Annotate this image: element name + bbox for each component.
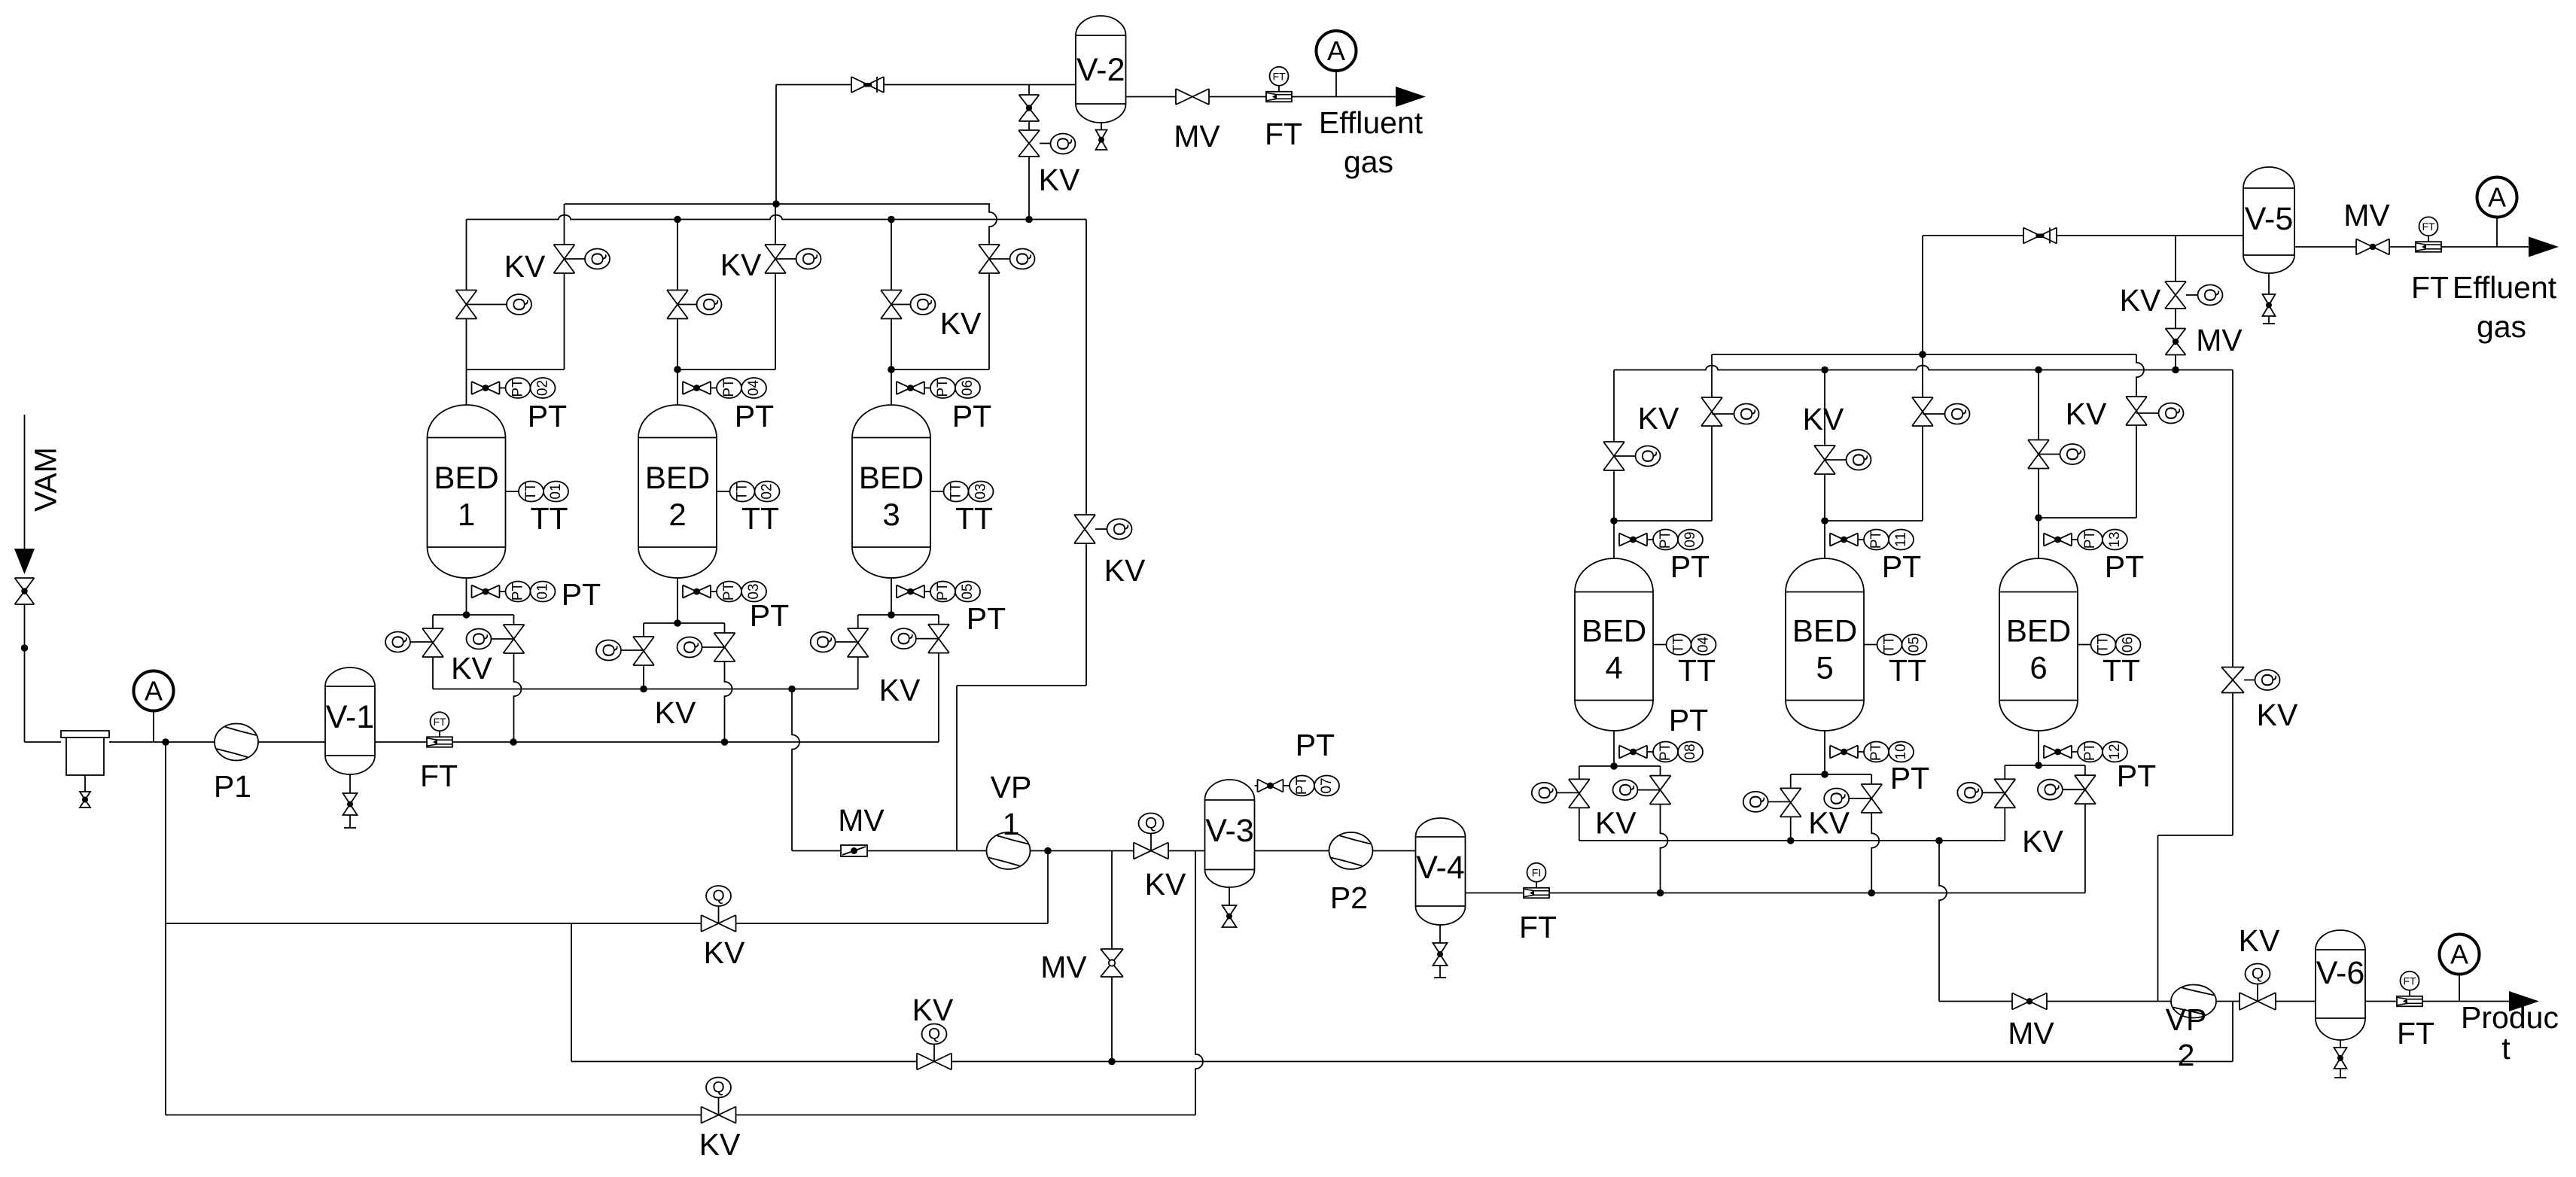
svg-text:Q: Q bbox=[1849, 453, 1868, 467]
svg-text:TT: TT bbox=[523, 482, 539, 500]
svg-text:Q: Q bbox=[2040, 783, 2060, 796]
svg-text:07: 07 bbox=[1319, 777, 1335, 793]
svg-text:A: A bbox=[1327, 35, 1345, 66]
svg-text:PT: PT bbox=[1868, 530, 1884, 549]
svg-text:KV: KV bbox=[2120, 283, 2161, 318]
svg-text:PT: PT bbox=[1658, 742, 1673, 761]
svg-text:05: 05 bbox=[1907, 637, 1923, 652]
svg-text:PT: PT bbox=[1296, 728, 1335, 762]
svg-text:KV: KV bbox=[655, 695, 696, 730]
svg-text:KV: KV bbox=[1039, 163, 1080, 197]
svg-text:1: 1 bbox=[458, 497, 475, 532]
svg-text:Q: Q bbox=[2252, 966, 2264, 983]
svg-text:P1: P1 bbox=[214, 769, 251, 804]
svg-text:TT: TT bbox=[741, 501, 779, 536]
svg-text:MV: MV bbox=[2008, 1016, 2054, 1051]
svg-text:V-4: V-4 bbox=[1416, 850, 1465, 886]
svg-text:TT: TT bbox=[530, 501, 568, 536]
svg-text:Q: Q bbox=[469, 632, 489, 646]
svg-text:02: 02 bbox=[760, 483, 775, 499]
svg-text:PT: PT bbox=[2082, 742, 2098, 761]
svg-text:Q: Q bbox=[699, 298, 719, 312]
svg-text:PT: PT bbox=[2082, 530, 2098, 549]
svg-text:3: 3 bbox=[882, 497, 900, 532]
svg-text:TT: TT bbox=[955, 501, 993, 536]
svg-text:BED: BED bbox=[645, 460, 710, 495]
svg-text:KV: KV bbox=[1595, 806, 1637, 841]
svg-text:2: 2 bbox=[668, 497, 686, 532]
svg-text:PT: PT bbox=[935, 582, 951, 601]
svg-text:Q: Q bbox=[588, 252, 607, 266]
svg-text:Q: Q bbox=[2161, 406, 2181, 420]
svg-text:V-1: V-1 bbox=[326, 699, 375, 735]
svg-text:PT: PT bbox=[2117, 759, 2156, 793]
svg-text:TT: TT bbox=[1671, 636, 1687, 654]
svg-text:Q: Q bbox=[388, 635, 408, 649]
svg-text:PT: PT bbox=[1882, 549, 1921, 584]
svg-text:Q: Q bbox=[510, 298, 529, 312]
svg-text:PT: PT bbox=[1890, 761, 1929, 795]
svg-text:13: 13 bbox=[2107, 531, 2123, 547]
svg-text:KV: KV bbox=[2257, 698, 2298, 732]
svg-text:t: t bbox=[2501, 1031, 2511, 1066]
svg-text:P2: P2 bbox=[1330, 880, 1368, 915]
svg-text:FT: FT bbox=[1272, 70, 1286, 82]
svg-text:Q: Q bbox=[599, 643, 619, 657]
svg-text:KV: KV bbox=[940, 306, 982, 341]
svg-text:Q: Q bbox=[799, 252, 818, 266]
svg-text:TT: TT bbox=[1889, 653, 1926, 688]
svg-text:PT: PT bbox=[1868, 742, 1884, 761]
svg-text:Q: Q bbox=[928, 1026, 940, 1043]
svg-text:05: 05 bbox=[960, 583, 976, 599]
svg-text:03: 03 bbox=[973, 483, 989, 499]
svg-text:Q: Q bbox=[1737, 407, 1756, 421]
svg-text:FT: FT bbox=[2403, 975, 2416, 987]
svg-text:Q: Q bbox=[1012, 252, 1032, 266]
svg-text:KV: KV bbox=[2066, 397, 2107, 431]
svg-text:03: 03 bbox=[746, 583, 762, 599]
svg-text:PT: PT bbox=[1294, 776, 1310, 795]
svg-text:Effluent: Effluent bbox=[2453, 270, 2557, 305]
svg-text:10: 10 bbox=[1893, 744, 1909, 759]
svg-text:KV: KV bbox=[879, 673, 921, 707]
svg-text:A: A bbox=[2450, 939, 2468, 970]
svg-text:PT: PT bbox=[510, 379, 526, 397]
svg-text:Q: Q bbox=[680, 640, 699, 654]
svg-text:KV: KV bbox=[1145, 867, 1186, 902]
svg-text:gas: gas bbox=[2477, 309, 2526, 344]
svg-text:FT: FT bbox=[433, 716, 446, 728]
svg-text:Produc: Produc bbox=[2461, 1000, 2559, 1035]
svg-text:VP: VP bbox=[991, 770, 1032, 804]
svg-text:02: 02 bbox=[535, 380, 551, 396]
svg-text:MV: MV bbox=[2196, 323, 2243, 357]
svg-text:V-2: V-2 bbox=[1076, 52, 1125, 88]
svg-text:PT: PT bbox=[721, 582, 737, 601]
svg-text:Q: Q bbox=[712, 887, 724, 905]
svg-text:TT: TT bbox=[735, 482, 751, 500]
svg-text:PT: PT bbox=[562, 577, 601, 612]
svg-text:BED: BED bbox=[859, 460, 924, 495]
svg-text:TT: TT bbox=[1678, 653, 1716, 688]
svg-text:FI: FI bbox=[1532, 866, 1541, 878]
svg-text:KV: KV bbox=[2239, 923, 2280, 958]
svg-text:MV: MV bbox=[838, 803, 885, 838]
svg-text:TT: TT bbox=[1882, 636, 1898, 654]
svg-text:PT: PT bbox=[1658, 530, 1673, 549]
svg-text:01: 01 bbox=[535, 583, 551, 599]
svg-text:04: 04 bbox=[1696, 637, 1712, 653]
svg-text:FT: FT bbox=[1265, 117, 1302, 151]
svg-text:Q: Q bbox=[813, 635, 833, 649]
svg-text:06: 06 bbox=[960, 380, 976, 396]
svg-text:PT: PT bbox=[750, 598, 789, 633]
svg-text:Q: Q bbox=[1947, 407, 1967, 421]
svg-text:PT: PT bbox=[510, 582, 526, 601]
svg-text:MV: MV bbox=[2343, 198, 2390, 233]
svg-text:A: A bbox=[145, 676, 163, 707]
svg-text:PT: PT bbox=[721, 379, 737, 397]
svg-text:PT: PT bbox=[967, 601, 1006, 636]
svg-text:BED: BED bbox=[434, 460, 498, 495]
svg-text:Q: Q bbox=[2258, 674, 2277, 687]
svg-text:Q: Q bbox=[1534, 786, 1554, 799]
svg-text:KV: KV bbox=[451, 651, 492, 686]
svg-text:Q: Q bbox=[2063, 448, 2082, 461]
svg-text:6: 6 bbox=[2029, 650, 2047, 686]
svg-text:Q: Q bbox=[1638, 449, 1658, 463]
svg-text:TT: TT bbox=[948, 482, 964, 500]
svg-text:KV: KV bbox=[1803, 402, 1844, 436]
svg-text:VAM: VAM bbox=[29, 447, 63, 512]
svg-text:MV: MV bbox=[1040, 950, 1087, 984]
svg-text:Q: Q bbox=[712, 1079, 724, 1096]
svg-text:KV: KV bbox=[704, 935, 745, 970]
svg-text:MV: MV bbox=[1174, 119, 1220, 154]
svg-text:PT: PT bbox=[735, 399, 774, 433]
svg-text:12: 12 bbox=[2107, 744, 2123, 759]
svg-text:2: 2 bbox=[2178, 1038, 2195, 1072]
svg-text:KV: KV bbox=[1808, 806, 1850, 841]
svg-text:PT: PT bbox=[935, 379, 951, 397]
svg-text:Q: Q bbox=[1960, 786, 1980, 799]
svg-text:PT: PT bbox=[952, 399, 991, 433]
svg-text:PT: PT bbox=[1669, 703, 1708, 738]
svg-text:5: 5 bbox=[1816, 650, 1833, 686]
svg-text:gas: gas bbox=[1344, 144, 1393, 179]
svg-text:KV: KV bbox=[2022, 824, 2063, 859]
svg-text:Q: Q bbox=[1145, 815, 1157, 832]
svg-text:Q: Q bbox=[2200, 288, 2220, 302]
svg-text:BED: BED bbox=[1582, 613, 1646, 649]
svg-text:1: 1 bbox=[1003, 807, 1020, 841]
svg-text:Q: Q bbox=[1827, 792, 1847, 805]
svg-text:V-3: V-3 bbox=[1205, 813, 1254, 849]
svg-text:4: 4 bbox=[1605, 650, 1622, 686]
svg-text:PT: PT bbox=[1670, 549, 1710, 584]
svg-text:FT: FT bbox=[420, 759, 458, 793]
svg-text:BED: BED bbox=[1792, 613, 1857, 649]
svg-text:BED: BED bbox=[2006, 613, 2071, 649]
svg-text:04: 04 bbox=[746, 380, 762, 397]
svg-text:V-5: V-5 bbox=[2245, 201, 2294, 237]
svg-text:Q: Q bbox=[1746, 795, 1765, 808]
svg-text:KV: KV bbox=[699, 1127, 741, 1162]
svg-text:KV: KV bbox=[720, 248, 762, 282]
svg-text:VP: VP bbox=[2166, 1002, 2207, 1037]
svg-text:PT: PT bbox=[2105, 549, 2144, 584]
svg-text:A: A bbox=[2488, 182, 2506, 213]
svg-text:09: 09 bbox=[1682, 531, 1698, 547]
svg-text:FT: FT bbox=[1519, 910, 1557, 944]
svg-text:TT: TT bbox=[2096, 636, 2112, 654]
svg-text:TT: TT bbox=[2103, 653, 2140, 688]
svg-text:KV: KV bbox=[1104, 553, 1146, 588]
svg-text:06: 06 bbox=[2121, 637, 2136, 652]
svg-text:Q: Q bbox=[1110, 522, 1129, 536]
svg-text:FT: FT bbox=[2397, 1016, 2434, 1051]
svg-text:V-6: V-6 bbox=[2316, 955, 2365, 991]
svg-text:KV: KV bbox=[1638, 401, 1679, 436]
svg-text:KV: KV bbox=[912, 993, 954, 1027]
svg-text:01: 01 bbox=[548, 483, 564, 499]
svg-text:PT: PT bbox=[528, 399, 567, 433]
svg-text:KV: KV bbox=[504, 249, 546, 284]
svg-text:Effluent: Effluent bbox=[1319, 105, 1423, 140]
svg-text:Q: Q bbox=[894, 632, 913, 646]
svg-text:FT: FT bbox=[2422, 220, 2435, 233]
svg-text:Q: Q bbox=[1053, 137, 1073, 151]
svg-text:FT: FT bbox=[2411, 270, 2449, 305]
svg-text:11: 11 bbox=[1893, 532, 1909, 547]
svg-text:08: 08 bbox=[1682, 744, 1698, 759]
svg-text:Q: Q bbox=[1615, 783, 1635, 797]
svg-text:Q: Q bbox=[913, 298, 933, 312]
